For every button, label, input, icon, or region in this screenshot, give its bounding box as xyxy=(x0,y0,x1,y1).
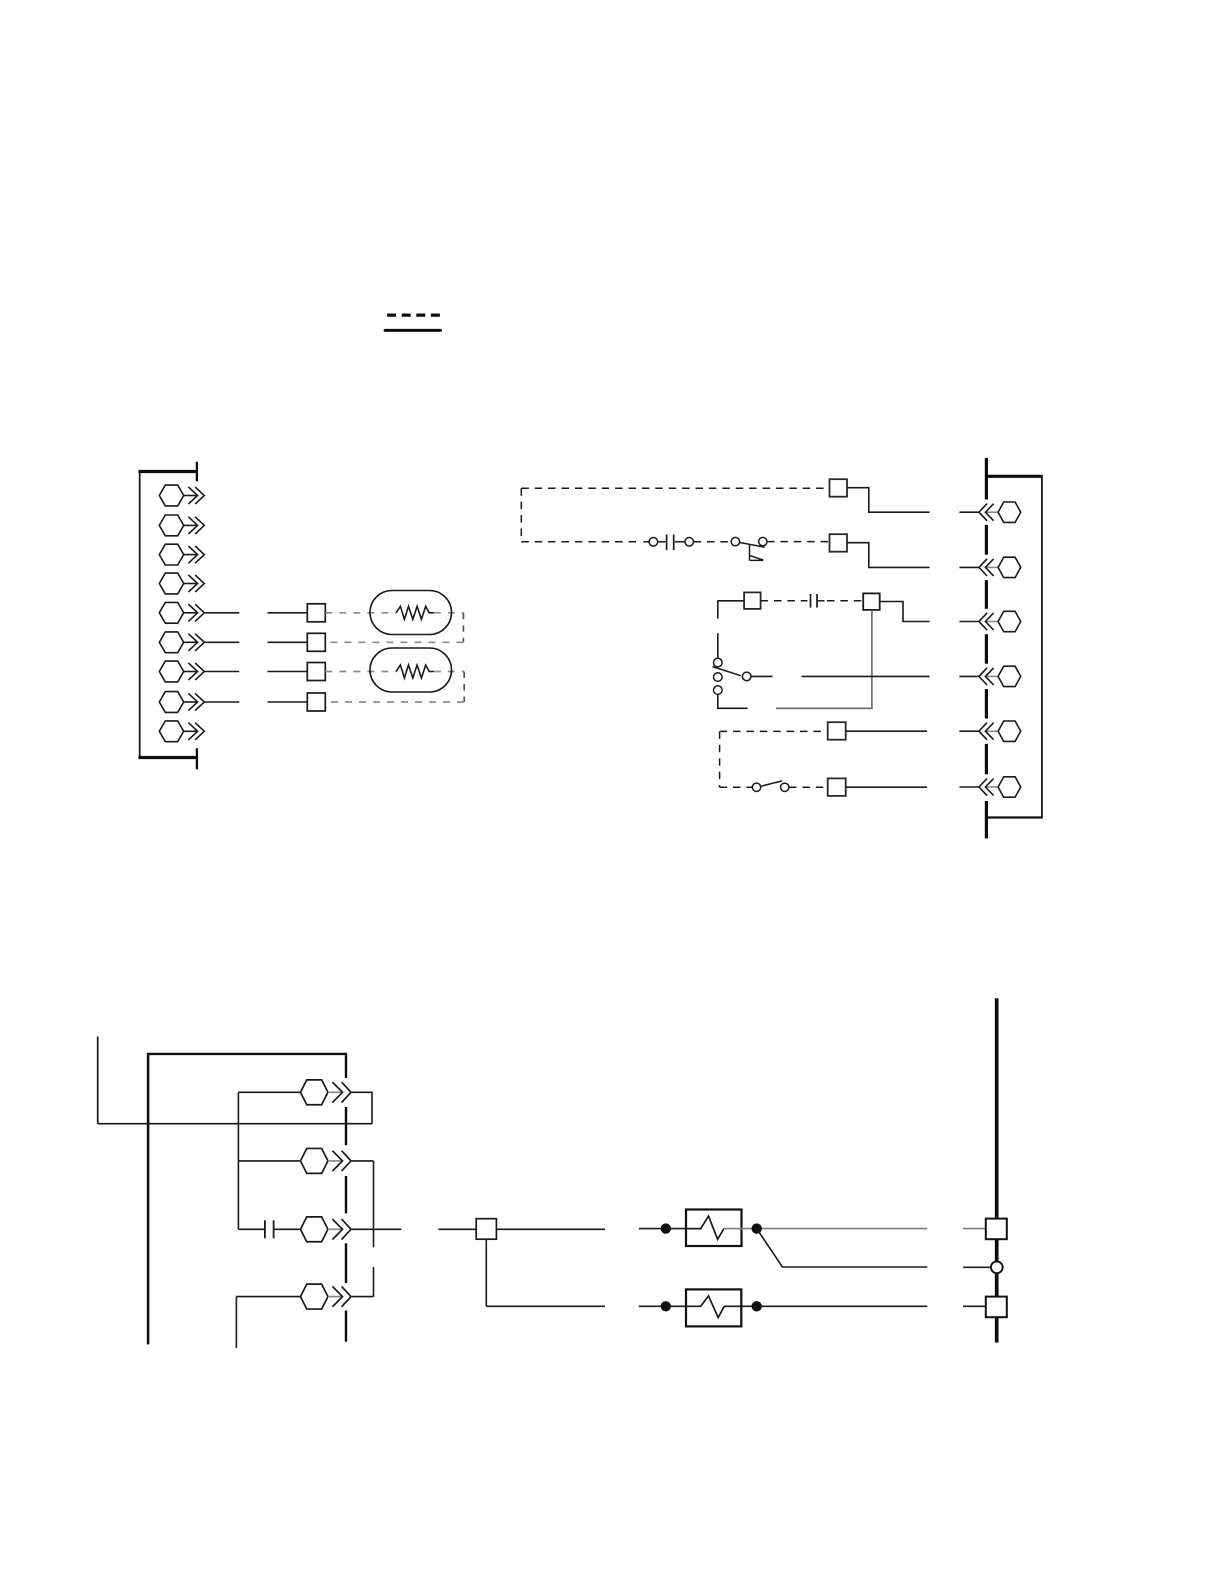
selector contact circle bottom xyxy=(714,686,723,695)
connector block J1 top tick xyxy=(196,462,198,482)
connector block J2 rail segment 3 xyxy=(985,580,988,609)
connector pin J1-2 xyxy=(159,515,204,536)
dashed net row7 segment a xyxy=(325,671,396,673)
wire K1 right xyxy=(496,1228,605,1230)
wire to R4 xyxy=(639,1305,686,1307)
wire capacitor C3 to P3 xyxy=(274,1228,301,1230)
SECTION: top-left connector block xyxy=(138,462,464,770)
wire from capacitor C2 xyxy=(818,600,825,602)
connector block J2 rail segment 6 xyxy=(985,744,988,774)
junction dot R4 in xyxy=(661,1301,671,1311)
terminal square C2 xyxy=(863,593,880,610)
switch S1 blade xyxy=(740,543,765,548)
resistor R4 element xyxy=(686,1296,724,1318)
gray wire R3 out xyxy=(724,1228,927,1230)
wire P3 right segment a xyxy=(352,1228,402,1230)
connector block J2 top bar xyxy=(986,475,1042,478)
wire from capacitor C1 xyxy=(675,541,685,543)
legend solid line xyxy=(385,329,440,332)
connector block J2 rail segment 7 xyxy=(985,801,988,838)
connector pin J1-6 xyxy=(159,632,204,653)
wire row D segment b xyxy=(802,675,930,677)
bus rail dashed segment 3 xyxy=(345,1176,347,1213)
capacitor C1 right plate xyxy=(673,535,675,551)
power bus vertical xyxy=(995,998,999,1342)
switch S1 operator flag xyxy=(750,555,764,560)
resistor R2 zigzag xyxy=(396,665,434,678)
capacitor C2 left plate xyxy=(810,594,812,608)
connector pin J2-2 xyxy=(959,557,1020,577)
connector pin J2-1 xyxy=(959,502,1020,522)
dashed net row8 xyxy=(325,701,464,703)
gray horizontal return xyxy=(776,707,873,709)
connector pin J1-8 xyxy=(159,692,204,713)
dashed net row E horizontal xyxy=(720,730,828,732)
black stub to bus square bottom xyxy=(963,1305,986,1307)
terminal square row8 xyxy=(307,693,325,711)
bus contact circle xyxy=(991,1261,1003,1273)
junction dot R3 out xyxy=(752,1223,762,1233)
connector pin J1-9 xyxy=(159,721,204,742)
switch S2 contact circle right xyxy=(781,783,789,791)
connector pin P1 xyxy=(300,1080,351,1105)
connector block J1 bottom tick xyxy=(196,748,198,769)
connector pin P3 xyxy=(300,1217,351,1242)
bus rail dashed segment 4 xyxy=(345,1243,347,1283)
capacitor C3 right plate xyxy=(273,1220,275,1238)
wire bottom return black xyxy=(717,707,748,709)
wire row6 segment b xyxy=(268,641,308,643)
wire vertical tie rows 3-4 xyxy=(373,1267,375,1297)
dashed net row C segment b xyxy=(827,600,863,602)
dashed net row F segment a xyxy=(720,786,753,788)
dashed net row5-6 vertical xyxy=(462,613,464,643)
wire row A jog xyxy=(847,488,930,513)
dashed net row A horizontal xyxy=(521,487,829,489)
connector pin J2-3 xyxy=(959,611,1020,631)
wire row F xyxy=(846,786,927,788)
wire to R3 xyxy=(639,1228,686,1230)
bus terminal square top xyxy=(986,1219,1007,1240)
dashed net row5 segment b xyxy=(434,612,464,614)
SECTION: bottom-left connector block xyxy=(98,1037,605,1348)
connector block J2 bottom bar xyxy=(986,816,1042,818)
terminal square row6 xyxy=(307,633,325,651)
wire vertical tie rows 1-3 xyxy=(237,1092,239,1229)
junction dot R3 in xyxy=(661,1223,671,1233)
connector pin P2 xyxy=(300,1148,351,1173)
resistor box R4 xyxy=(686,1289,741,1326)
connector block J1 left rail xyxy=(139,471,141,759)
gray stub to bus square top xyxy=(963,1228,986,1230)
switch S1 contact circle left xyxy=(731,537,739,545)
SECTION: bottom-right bus xyxy=(639,998,1007,1342)
connector block J2 rail segment 2 xyxy=(985,525,988,555)
wire P1 right loop xyxy=(352,1092,372,1123)
switch S1 contact circle right xyxy=(759,537,767,545)
bus top bar xyxy=(147,1053,347,1055)
connector block J1 top bar xyxy=(138,470,196,473)
feed line vertical xyxy=(97,1037,99,1124)
wire to capacitor C3 xyxy=(238,1228,264,1230)
wire to square C1 xyxy=(718,600,745,602)
resistor box R3 xyxy=(686,1210,742,1247)
resistor oval R1 body xyxy=(370,591,452,635)
terminal square row F xyxy=(828,778,846,796)
connector pin J1-4 xyxy=(159,573,204,594)
junction square K1 xyxy=(476,1219,496,1240)
wire row5 segment b xyxy=(268,612,308,614)
wire R4 out xyxy=(724,1305,927,1307)
dashed net row B segment b xyxy=(694,541,731,543)
connector block J1 bottom bar xyxy=(138,756,196,759)
dashed net row6 xyxy=(325,641,463,643)
wire P4 right xyxy=(352,1296,374,1298)
capacitor C1 left plate xyxy=(666,535,668,551)
wire P2 right xyxy=(352,1160,374,1162)
connector block J2 rail segment 5 xyxy=(985,689,988,718)
connector block J2 rail segment 4 xyxy=(985,634,988,664)
connector block J2 rail segment 1 xyxy=(985,458,988,500)
terminal square row B xyxy=(830,534,848,552)
dashed net row F segment b xyxy=(789,786,828,788)
terminal square row A xyxy=(830,479,848,497)
feed line horizontal xyxy=(98,1123,372,1125)
wire row6 segment a xyxy=(204,641,239,643)
dashed net row5 segment a xyxy=(325,612,396,614)
dashed net row B segment c xyxy=(767,541,830,543)
connector pin J1-3 xyxy=(159,544,204,565)
wire row8 segment a xyxy=(204,701,239,703)
capacitor C2 right plate xyxy=(816,594,818,608)
wire left drop segment b xyxy=(717,633,719,658)
dashed net row E-F vertical xyxy=(719,731,721,787)
connector pin J2-5 xyxy=(959,721,1020,741)
bus rail left solid xyxy=(147,1053,150,1344)
wire K1 lower right xyxy=(486,1305,605,1307)
dashed net row A-B vertical xyxy=(520,488,522,541)
resistor R1 zigzag xyxy=(396,606,434,619)
connector pin P4 xyxy=(300,1284,351,1309)
selector contact circle top xyxy=(714,658,723,667)
wire row7 segment a xyxy=(204,671,239,673)
selector switch blade xyxy=(713,667,741,676)
junction dot R4 out xyxy=(752,1301,762,1311)
wire left drop segment a xyxy=(717,601,719,619)
switch S2 contact circle left xyxy=(752,783,760,791)
wire below selector xyxy=(717,695,719,709)
bus rail dashed segment 1 xyxy=(345,1054,347,1078)
wire P2 left xyxy=(238,1160,300,1162)
connector pin J2-6 xyxy=(959,777,1020,797)
dashed net row C segment a xyxy=(761,600,808,602)
wire row B jog xyxy=(847,543,930,568)
selector contact circle middle xyxy=(714,673,723,682)
switch S2 blade xyxy=(761,781,782,786)
wire P4 drop xyxy=(235,1297,237,1348)
branch diagonal from R3 out xyxy=(757,1229,928,1267)
terminal square row E xyxy=(828,722,846,740)
wire P4 left xyxy=(236,1296,300,1298)
wire to capacitor C1 xyxy=(658,541,666,543)
wire row D segment a xyxy=(751,675,772,677)
wire row E xyxy=(846,730,927,732)
dashed net row7-8 vertical xyxy=(463,672,465,703)
wire K1 drop xyxy=(485,1239,487,1306)
bus terminal square bottom xyxy=(986,1297,1007,1318)
bus rail dashed segment 2 xyxy=(345,1107,347,1145)
wire row8 segment b xyxy=(268,701,308,703)
bus rail dashed segment 5 xyxy=(345,1311,347,1342)
resistor oval R2 body xyxy=(370,648,452,692)
gray vertical from square C2 xyxy=(871,610,873,708)
connector pin J1-5 xyxy=(159,602,204,623)
selector pole circle xyxy=(742,672,751,681)
contact circle B1 xyxy=(649,538,658,547)
terminal square row5 xyxy=(307,604,325,622)
SECTION: legend xyxy=(385,315,441,330)
SECTION: top-right connector block xyxy=(521,458,1042,839)
connector pin J1-1 xyxy=(159,485,204,506)
wire vertical tie rows 2-3 xyxy=(373,1161,375,1247)
wire row5 segment a xyxy=(204,612,239,614)
connector pin J2-4 xyxy=(959,666,1020,686)
wire P1 left xyxy=(238,1091,300,1093)
black stub to bus circle xyxy=(963,1266,991,1268)
terminal square row7 xyxy=(307,663,325,681)
wire to contact circle B1 xyxy=(643,541,649,543)
switch S1 operator stem xyxy=(749,544,751,560)
connector pin J1-7 xyxy=(159,661,204,682)
contact circle B2 xyxy=(685,538,694,547)
terminal square C1 xyxy=(744,592,761,609)
legend dashed line xyxy=(387,313,441,316)
wire row C jog xyxy=(880,602,930,622)
dashed net row7 segment b xyxy=(434,671,464,673)
wire P3 right segment b xyxy=(438,1228,476,1230)
wire row7 segment b xyxy=(268,671,308,673)
dashed net row B segment a xyxy=(521,541,637,543)
capacitor C3 left plate xyxy=(264,1220,266,1238)
connector block J2 right frame xyxy=(1041,476,1043,817)
resistor R3 element xyxy=(686,1216,724,1239)
